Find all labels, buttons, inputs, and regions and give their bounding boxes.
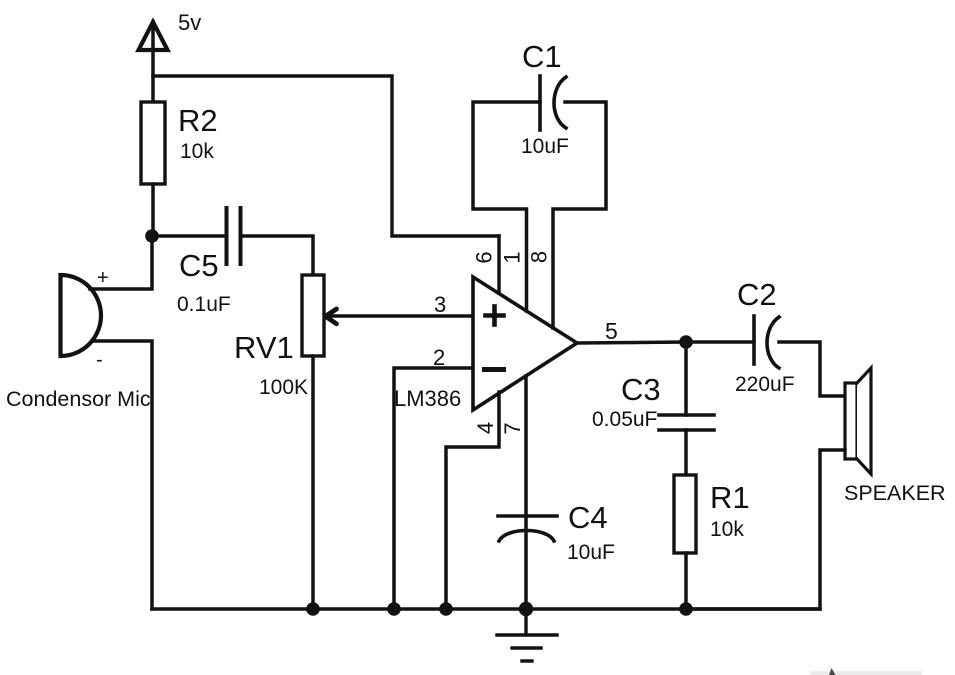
wire pin 6 <box>497 236 501 293</box>
node A junction dot <box>145 229 159 243</box>
op-amp + input symbol <box>486 307 504 325</box>
wire pin1 to C1 left <box>473 102 540 311</box>
svg-text:100K: 100K <box>259 376 308 399</box>
speaker LS1 <box>845 368 871 474</box>
svg-text:C2: C2 <box>737 277 777 312</box>
op-amp U1 LM386 triangle <box>473 277 577 410</box>
svg-text:1: 1 <box>500 251 525 263</box>
svg-text:Condensor Mic: Condensor Mic <box>6 387 151 411</box>
svg-text:10uF: 10uF <box>521 135 569 158</box>
resistor R1 <box>674 475 696 553</box>
wire C2 to speaker + <box>779 342 845 396</box>
capacitor C3 <box>659 415 714 430</box>
svg-text:SPEAKER: SPEAKER <box>844 481 946 505</box>
wire pin8 to C1 right <box>553 102 606 328</box>
svg-text:R2: R2 <box>178 103 218 138</box>
wire pin 2 to ground rail <box>394 368 473 609</box>
svg-text:C4: C4 <box>568 500 608 535</box>
ground symbol <box>497 609 557 661</box>
wire C4 to ground rail <box>524 516 528 609</box>
svg-text:3: 3 <box>434 292 446 317</box>
svg-text:+: + <box>97 267 109 289</box>
svg-text:0.05uF: 0.05uF <box>592 408 657 431</box>
wire node B to C3 <box>684 342 688 415</box>
svg-text:2: 2 <box>433 345 445 370</box>
svg-text:7: 7 <box>500 422 525 434</box>
capacitor C4 <box>498 516 557 541</box>
junction dot pin4/rail <box>439 602 453 616</box>
capacitor C5 <box>227 208 241 264</box>
resistor R2 <box>141 102 165 184</box>
op-amp - input symbol <box>485 367 504 372</box>
svg-text:5v: 5v <box>178 10 201 35</box>
ground rail wire <box>152 607 820 610</box>
svg-text:C3: C3 <box>621 372 661 407</box>
wire 5v rail to pin6 drop <box>153 76 499 236</box>
wire RV1 bottom to ground rail <box>311 356 315 609</box>
condenser mic MK1 <box>61 275 102 356</box>
svg-text:RV1: RV1 <box>234 330 294 365</box>
svg-text:10uF: 10uF <box>567 541 615 564</box>
svg-text:10k: 10k <box>180 140 214 163</box>
svg-text:R1: R1 <box>710 480 750 515</box>
wire C3 to R1 <box>684 430 688 475</box>
power +5V symbol <box>139 22 168 102</box>
wire RV1 wiper arrow to pin 3 <box>326 309 474 324</box>
svg-text:C5: C5 <box>179 248 219 283</box>
svg-text:220uF: 220uF <box>735 373 795 396</box>
wire mic + to node A <box>90 236 152 289</box>
svg-text:LM386: LM386 <box>394 386 461 411</box>
svg-text:0.1uF: 0.1uF <box>177 293 231 316</box>
wire output pin 5 <box>577 342 686 343</box>
wire C5 to RV1 top <box>241 236 314 275</box>
wire R2 to node A <box>151 184 155 236</box>
svg-text:10k: 10k <box>710 518 744 541</box>
stray mark bottom right <box>812 668 920 675</box>
capacitor C1 <box>540 76 566 130</box>
junction dot pin2/rail <box>387 602 401 616</box>
wire pin 4 to ground rail <box>446 392 499 609</box>
svg-text:-: - <box>96 349 103 371</box>
svg-text:C1: C1 <box>522 39 562 74</box>
svg-text:5: 5 <box>605 318 618 344</box>
wire node B to C2 <box>686 340 754 344</box>
svg-text:6: 6 <box>472 251 497 263</box>
junction dot RV1/rail <box>306 602 320 616</box>
junction dot R1/rail <box>679 602 693 616</box>
wire mic - to ground rail <box>92 341 152 609</box>
svg-text:4: 4 <box>473 422 498 434</box>
wire R1 to ground rail <box>684 553 688 609</box>
capacitor C2 <box>754 316 779 368</box>
wire speaker - return to ground rail <box>686 450 845 609</box>
junction dot C4/rail <box>519 602 533 616</box>
svg-text:8: 8 <box>527 251 552 263</box>
node B junction dot <box>679 335 693 349</box>
wire node A to C5 <box>152 234 227 238</box>
wire pin 7 to C4 <box>524 376 528 516</box>
potentiometer RV1 <box>302 275 324 356</box>
